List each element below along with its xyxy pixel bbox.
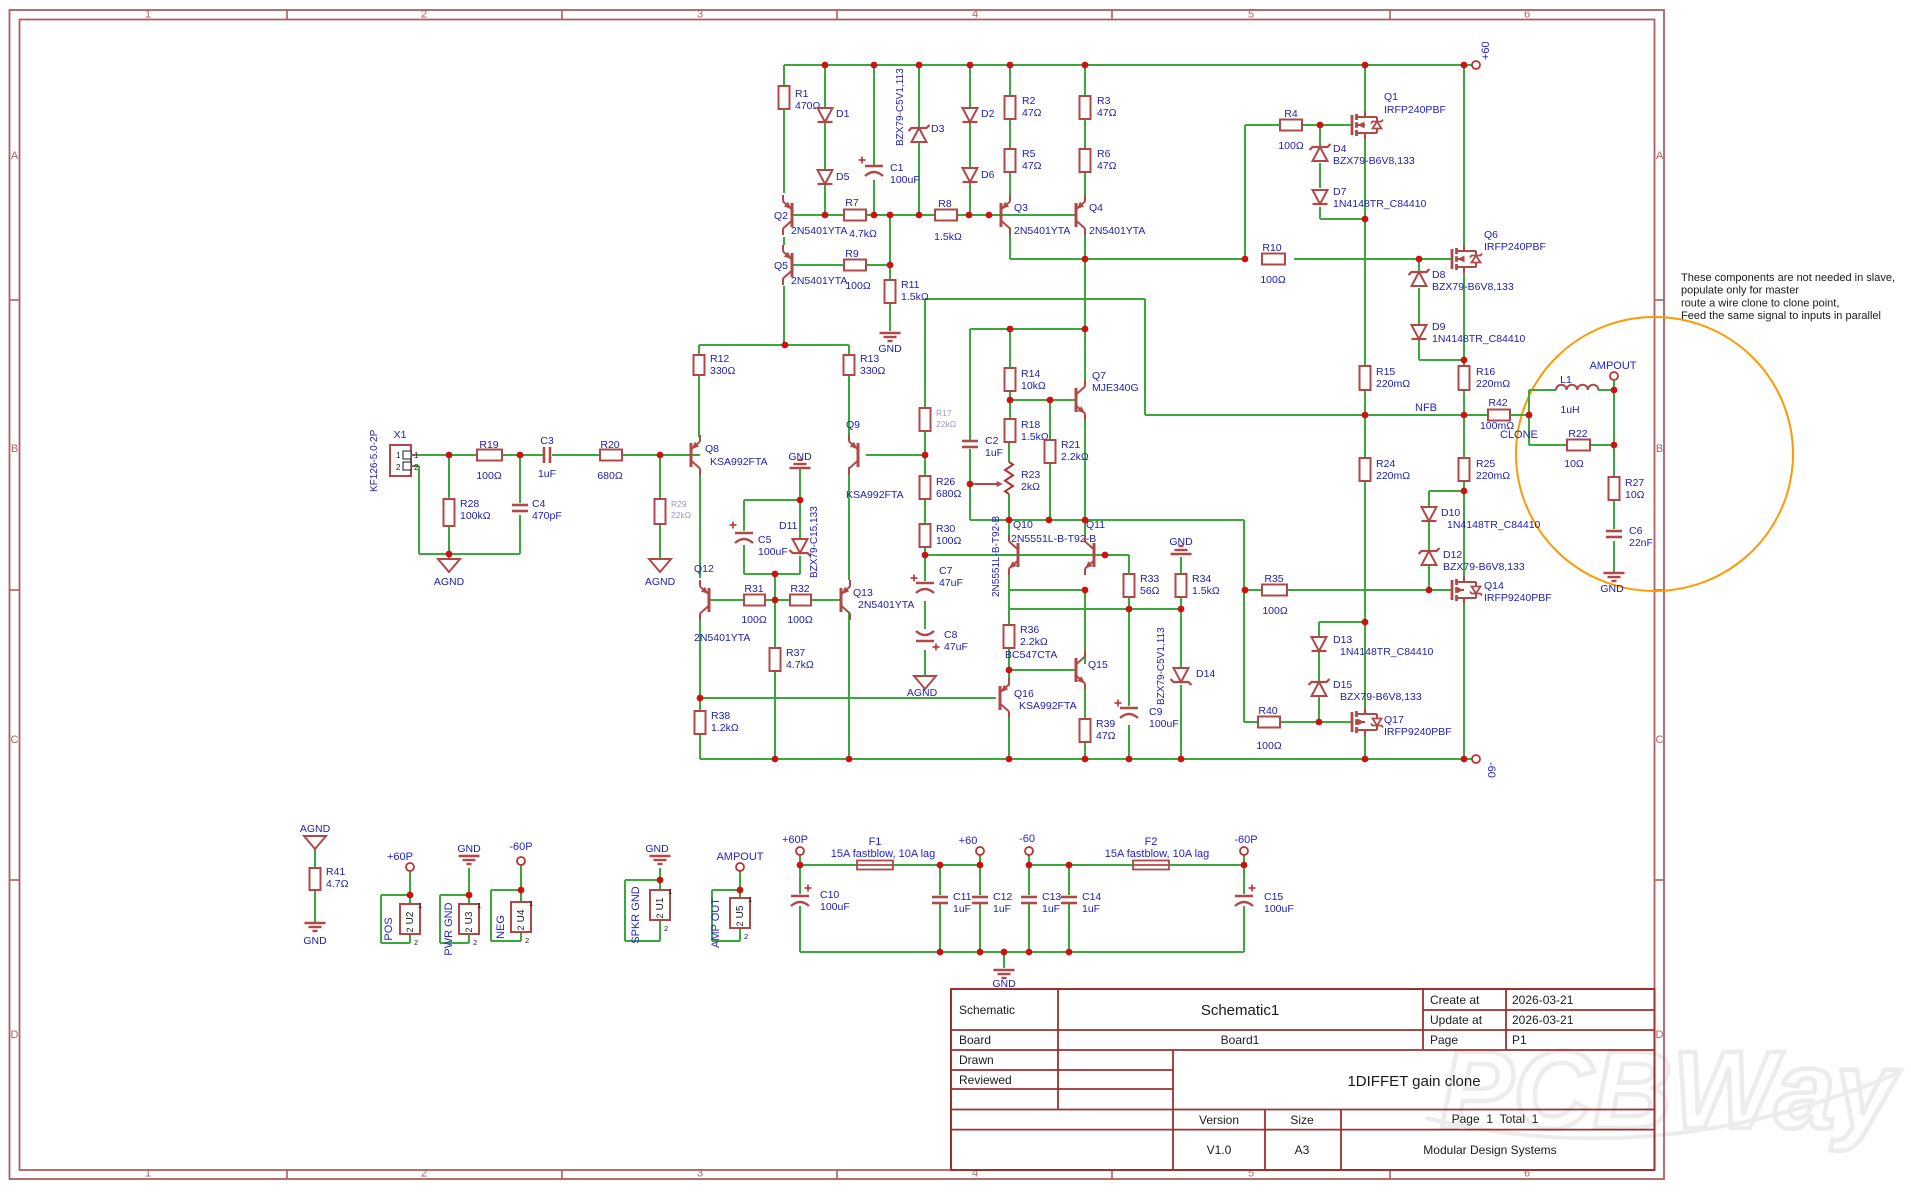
svg-text:Update at: Update at — [1430, 1013, 1483, 1027]
svg-text:2N5551L-B-T92-B: 2N5551L-B-T92-B — [991, 516, 1002, 597]
svg-text:GND: GND — [788, 451, 812, 463]
svg-text:2: 2 — [464, 927, 474, 932]
svg-text:BZX79-B6V8,133: BZX79-B6V8,133 — [1443, 561, 1525, 573]
svg-text:KSA992FTA: KSA992FTA — [710, 456, 768, 468]
svg-text:C11: C11 — [953, 891, 972, 903]
svg-text:470Ω: 470Ω — [795, 100, 821, 112]
svg-text:R35: R35 — [1264, 573, 1283, 585]
svg-text:100Ω: 100Ω — [787, 614, 813, 626]
svg-text:R39: R39 — [1096, 718, 1115, 730]
svg-text:100Ω: 100Ω — [1260, 274, 1286, 286]
svg-text:100Ω: 100Ω — [741, 614, 767, 626]
svg-text:1: 1 — [748, 895, 752, 904]
svg-text:R7: R7 — [845, 197, 859, 209]
svg-text:C: C — [11, 734, 19, 746]
svg-text:R33: R33 — [1140, 573, 1159, 585]
svg-text:1: 1 — [668, 887, 672, 896]
svg-text:1.5kΩ: 1.5kΩ — [934, 231, 962, 243]
svg-text:AMPOUT: AMPOUT — [1589, 360, 1636, 372]
svg-text:MJE340G: MJE340G — [1092, 382, 1139, 394]
svg-text:R10: R10 — [1262, 242, 1281, 254]
svg-text:47Ω: 47Ω — [1096, 730, 1116, 742]
svg-text:10kΩ: 10kΩ — [1021, 380, 1046, 392]
svg-text:R27: R27 — [1625, 477, 1644, 489]
svg-text:R31: R31 — [744, 583, 763, 595]
svg-text:1N4148TR_C84410: 1N4148TR_C84410 — [1432, 333, 1526, 345]
svg-text:R38: R38 — [711, 710, 730, 722]
svg-text:47Ω: 47Ω — [1022, 107, 1042, 119]
svg-text:100uF: 100uF — [1149, 718, 1179, 730]
svg-text:KSA992FTA: KSA992FTA — [846, 489, 904, 501]
svg-text:A: A — [11, 150, 19, 162]
svg-text:2: 2 — [414, 938, 418, 947]
svg-text:Board: Board — [959, 1033, 991, 1047]
svg-text:AMPOUT: AMPOUT — [716, 851, 763, 863]
svg-text:R3: R3 — [1097, 95, 1111, 107]
svg-text:C12: C12 — [993, 891, 1012, 903]
svg-text:100Ω: 100Ω — [1278, 140, 1304, 152]
svg-text:R36: R36 — [1020, 624, 1039, 636]
svg-text:X1: X1 — [394, 429, 407, 441]
svg-text:1uF: 1uF — [993, 903, 1011, 915]
svg-text:R40: R40 — [1258, 705, 1277, 717]
svg-text:220mΩ: 220mΩ — [1476, 378, 1510, 390]
svg-text:U1: U1 — [655, 897, 666, 910]
svg-text:+60: +60 — [1480, 41, 1492, 60]
svg-text:Q2: Q2 — [774, 210, 788, 222]
svg-text:BZX79-B6V8,133: BZX79-B6V8,133 — [1432, 281, 1514, 293]
svg-text:1: 1 — [477, 901, 481, 910]
svg-text:Modular Design Systems: Modular Design Systems — [1423, 1143, 1556, 1157]
svg-text:BZX79-B6V8,133: BZX79-B6V8,133 — [1333, 155, 1415, 167]
svg-text:R42: R42 — [1488, 397, 1507, 409]
svg-text:100kΩ: 100kΩ — [460, 510, 491, 522]
svg-text:C15: C15 — [1264, 891, 1283, 903]
svg-text:1uF: 1uF — [985, 447, 1003, 459]
svg-text:R21: R21 — [1061, 439, 1080, 451]
svg-text:Q3: Q3 — [1014, 202, 1028, 214]
svg-text:1: 1 — [145, 9, 151, 21]
svg-text:2: 2 — [516, 925, 526, 930]
svg-text:R23: R23 — [1021, 469, 1040, 481]
svg-text:IRFP240PBF: IRFP240PBF — [1484, 241, 1546, 253]
svg-text:GND: GND — [1600, 583, 1624, 595]
svg-text:C9: C9 — [1149, 706, 1163, 718]
svg-text:4.7kΩ: 4.7kΩ — [849, 228, 877, 240]
svg-text:R18: R18 — [1021, 419, 1040, 431]
svg-text:4: 4 — [972, 9, 978, 21]
svg-text:2: 2 — [414, 463, 419, 472]
svg-text:D15: D15 — [1333, 679, 1352, 691]
svg-text:100uF: 100uF — [758, 546, 788, 558]
svg-text:+60: +60 — [959, 835, 978, 847]
svg-text:B: B — [11, 443, 18, 455]
svg-text:2026-03-21: 2026-03-21 — [1512, 1013, 1574, 1027]
svg-text:Drawn: Drawn — [959, 1053, 994, 1067]
svg-text:BC547CTA: BC547CTA — [1005, 649, 1057, 661]
svg-text:220mΩ: 220mΩ — [1376, 378, 1410, 390]
svg-text:D12: D12 — [1443, 549, 1462, 561]
svg-text:Feed the same signal to inputs: Feed the same signal to inputs in parall… — [1681, 310, 1881, 322]
svg-text:POS: POS — [383, 917, 395, 940]
svg-text:GND: GND — [1169, 536, 1193, 548]
svg-text:AGND: AGND — [300, 823, 331, 835]
svg-text:C5: C5 — [758, 534, 772, 546]
svg-text:Size: Size — [1290, 1113, 1314, 1127]
svg-text:1.5kΩ: 1.5kΩ — [1192, 585, 1220, 597]
svg-text:C6: C6 — [1629, 525, 1643, 537]
svg-text:2N5401YTA: 2N5401YTA — [858, 599, 914, 611]
svg-text:1: 1 — [145, 1168, 151, 1180]
svg-text:R34: R34 — [1192, 573, 1211, 585]
svg-text:Board1: Board1 — [1221, 1033, 1260, 1047]
svg-text:R16: R16 — [1476, 366, 1495, 378]
svg-text:R26: R26 — [936, 476, 955, 488]
svg-text:D3: D3 — [931, 123, 945, 135]
svg-text:Q5: Q5 — [774, 260, 788, 272]
svg-text:3: 3 — [697, 1168, 703, 1180]
svg-text:R8: R8 — [938, 198, 952, 210]
svg-text:2: 2 — [421, 1168, 427, 1180]
svg-text:22kΩ: 22kΩ — [671, 510, 691, 520]
svg-text:GND: GND — [878, 343, 902, 355]
svg-text:4.7Ω: 4.7Ω — [326, 878, 349, 890]
svg-text:2: 2 — [525, 936, 529, 945]
svg-text:D13: D13 — [1333, 634, 1352, 646]
svg-text:1N4148TR_C84410: 1N4148TR_C84410 — [1333, 198, 1427, 210]
svg-text:330Ω: 330Ω — [860, 365, 886, 377]
svg-text:D9: D9 — [1432, 321, 1446, 333]
svg-text:220mΩ: 220mΩ — [1376, 470, 1410, 482]
svg-text:Schematic1: Schematic1 — [1201, 1002, 1279, 1019]
svg-text:47Ω: 47Ω — [1022, 160, 1042, 172]
svg-text:1uF: 1uF — [538, 468, 556, 480]
svg-text:C: C — [1656, 734, 1664, 746]
svg-text:R2: R2 — [1022, 95, 1036, 107]
svg-text:AGND: AGND — [907, 687, 938, 699]
svg-text:100uF: 100uF — [890, 174, 920, 186]
svg-text:15A fastblow, 10A lag: 15A fastblow, 10A lag — [1105, 848, 1210, 860]
svg-text:Q7: Q7 — [1092, 370, 1106, 382]
svg-text:100Ω: 100Ω — [476, 470, 502, 482]
svg-text:C14: C14 — [1082, 891, 1101, 903]
svg-text:NEG: NEG — [495, 915, 507, 939]
svg-text:R24: R24 — [1376, 458, 1395, 470]
svg-text:470pF: 470pF — [532, 510, 562, 522]
svg-text:F1: F1 — [869, 836, 882, 848]
svg-text:2N5401YTA: 2N5401YTA — [694, 632, 750, 644]
svg-text:2: 2 — [655, 913, 665, 918]
svg-text:Q11: Q11 — [1086, 519, 1105, 531]
svg-text:Q4: Q4 — [1089, 202, 1103, 214]
svg-text:V1.0: V1.0 — [1207, 1143, 1232, 1157]
svg-text:R37: R37 — [786, 647, 805, 659]
svg-text:R1: R1 — [795, 88, 809, 100]
svg-text:100Ω: 100Ω — [936, 535, 962, 547]
svg-text:R15: R15 — [1376, 366, 1395, 378]
svg-text:680Ω: 680Ω — [597, 470, 623, 482]
svg-text:Q1: Q1 — [1384, 91, 1398, 103]
svg-text:100Ω: 100Ω — [1262, 605, 1288, 617]
svg-text:47Ω: 47Ω — [1097, 107, 1117, 119]
svg-text:-60: -60 — [1485, 762, 1497, 778]
svg-text:2: 2 — [405, 927, 415, 932]
svg-text:R11: R11 — [901, 279, 920, 291]
svg-text:Q16: Q16 — [1014, 688, 1034, 700]
svg-text:220mΩ: 220mΩ — [1476, 470, 1510, 482]
svg-text:route a wire clone to clone po: route a wire clone to clone point, — [1681, 297, 1839, 309]
svg-text:Create at: Create at — [1430, 993, 1480, 1007]
svg-text:D2: D2 — [981, 108, 995, 120]
svg-text:100uF: 100uF — [1264, 903, 1294, 915]
svg-text:D8: D8 — [1432, 269, 1446, 281]
svg-text:Version: Version — [1199, 1113, 1239, 1127]
svg-text:BZX79-B6V8,133: BZX79-B6V8,133 — [1340, 691, 1422, 703]
svg-text:F2: F2 — [1145, 836, 1158, 848]
svg-text:330Ω: 330Ω — [710, 365, 736, 377]
svg-text:Q8: Q8 — [705, 443, 719, 455]
svg-text:56Ω: 56Ω — [1140, 585, 1160, 597]
svg-text:R32: R32 — [790, 583, 809, 595]
svg-text:AMP OUT: AMP OUT — [710, 898, 722, 948]
svg-text:BZX79-C5V1,113: BZX79-C5V1,113 — [895, 68, 906, 146]
svg-text:C2: C2 — [985, 435, 999, 447]
svg-text:R41: R41 — [326, 866, 345, 878]
svg-text:R20: R20 — [600, 439, 619, 451]
svg-text:2N5401YTA: 2N5401YTA — [791, 275, 847, 287]
svg-text:Q13: Q13 — [853, 587, 873, 599]
svg-text:IRFP9240PBF: IRFP9240PBF — [1484, 592, 1552, 604]
svg-text:1.5kΩ: 1.5kΩ — [901, 291, 929, 303]
svg-text:-60P: -60P — [509, 841, 532, 853]
svg-text:GND: GND — [645, 843, 669, 855]
svg-text:1: 1 — [418, 901, 422, 910]
svg-text:Q10: Q10 — [1013, 519, 1033, 531]
svg-text:U5: U5 — [735, 905, 746, 918]
svg-text:Reviewed: Reviewed — [959, 1073, 1012, 1087]
svg-text:2N5401YTA: 2N5401YTA — [1014, 225, 1070, 237]
svg-text:1DIFFET gain clone: 1DIFFET gain clone — [1347, 1073, 1480, 1090]
svg-text:C7: C7 — [939, 565, 953, 577]
svg-text:1N4148TR_C84410: 1N4148TR_C84410 — [1340, 646, 1434, 658]
svg-text:+60P: +60P — [782, 834, 808, 846]
svg-text:2kΩ: 2kΩ — [1021, 481, 1040, 493]
svg-text:C4: C4 — [532, 498, 546, 510]
svg-text:D11: D11 — [779, 520, 798, 532]
svg-text:R12: R12 — [710, 353, 729, 365]
svg-text:IRFP9240PBF: IRFP9240PBF — [1384, 726, 1452, 738]
svg-text:2: 2 — [396, 463, 401, 472]
svg-text:NFB: NFB — [1415, 402, 1437, 414]
svg-text:R5: R5 — [1022, 148, 1036, 160]
svg-text:U3: U3 — [464, 911, 475, 924]
svg-text:C3: C3 — [540, 435, 554, 447]
svg-text:47uF: 47uF — [944, 641, 968, 653]
svg-text:2: 2 — [473, 938, 477, 947]
svg-text:1: 1 — [414, 451, 419, 460]
svg-text:These components are not neede: These components are not needed in slave… — [1681, 272, 1895, 284]
svg-text:GND: GND — [303, 935, 327, 947]
svg-text:1: 1 — [529, 899, 533, 908]
svg-text:D: D — [1656, 1029, 1664, 1041]
svg-text:IRFP240PBF: IRFP240PBF — [1384, 104, 1446, 116]
svg-text:Q15: Q15 — [1088, 659, 1108, 671]
svg-text:D6: D6 — [981, 169, 995, 181]
svg-text:2N5401YTA: 2N5401YTA — [1089, 225, 1145, 237]
svg-text:10Ω: 10Ω — [1625, 489, 1645, 501]
svg-text:D1: D1 — [836, 108, 850, 120]
svg-text:R9: R9 — [845, 248, 859, 260]
svg-text:C10: C10 — [820, 889, 839, 901]
svg-text:CLONE: CLONE — [1500, 429, 1538, 441]
svg-text:5: 5 — [1248, 9, 1254, 21]
svg-text:U4: U4 — [516, 909, 527, 922]
svg-text:15A fastblow, 10A lag: 15A fastblow, 10A lag — [831, 848, 936, 860]
svg-text:Q6: Q6 — [1484, 229, 1498, 241]
svg-text:Q12: Q12 — [694, 563, 714, 575]
svg-text:2: 2 — [735, 921, 745, 926]
svg-text:BZX79-C5V1,113: BZX79-C5V1,113 — [1156, 627, 1167, 705]
svg-text:Page 1 Total 1: Page 1 Total 1 — [1452, 1112, 1539, 1126]
svg-text:AGND: AGND — [434, 576, 465, 588]
svg-text:C8: C8 — [944, 629, 958, 641]
svg-text:2: 2 — [744, 932, 748, 941]
svg-text:22kΩ: 22kΩ — [936, 419, 956, 429]
svg-text:-60: -60 — [1019, 833, 1035, 845]
svg-text:Q17: Q17 — [1384, 714, 1404, 726]
svg-text:D5: D5 — [836, 171, 850, 183]
svg-text:BZX79-C15,133: BZX79-C15,133 — [809, 506, 820, 578]
svg-text:P1: P1 — [1512, 1033, 1527, 1047]
svg-text:1uF: 1uF — [953, 903, 971, 915]
svg-text:47Ω: 47Ω — [1097, 160, 1117, 172]
svg-text:C1: C1 — [890, 162, 904, 174]
svg-text:Schematic: Schematic — [959, 1003, 1015, 1017]
svg-text:R25: R25 — [1476, 458, 1495, 470]
svg-text:D14: D14 — [1196, 668, 1215, 680]
svg-text:6: 6 — [1524, 9, 1530, 21]
svg-text:D: D — [11, 1029, 19, 1041]
svg-text:1: 1 — [396, 451, 401, 460]
svg-text:1uH: 1uH — [1560, 404, 1579, 416]
svg-text:R22: R22 — [1568, 428, 1587, 440]
svg-text:100Ω: 100Ω — [845, 280, 871, 292]
svg-text:KSA992FTA: KSA992FTA — [1019, 700, 1077, 712]
svg-text:2.2kΩ: 2.2kΩ — [1020, 636, 1048, 648]
svg-text:10Ω: 10Ω — [1564, 458, 1584, 470]
svg-text:-60P: -60P — [1234, 834, 1257, 846]
svg-text:2: 2 — [421, 9, 427, 21]
svg-text:1.2kΩ: 1.2kΩ — [711, 722, 739, 734]
svg-text:R19: R19 — [479, 439, 498, 451]
svg-text:Page: Page — [1430, 1033, 1458, 1047]
svg-text:100Ω: 100Ω — [1256, 740, 1282, 752]
svg-text:B: B — [1656, 443, 1663, 455]
svg-text:U2: U2 — [405, 911, 416, 924]
svg-text:100uF: 100uF — [820, 901, 850, 913]
svg-text:SPKR GND: SPKR GND — [630, 886, 642, 944]
svg-text:D10: D10 — [1441, 507, 1460, 519]
svg-text:A3: A3 — [1295, 1143, 1310, 1157]
svg-text:populate only for master: populate only for master — [1681, 285, 1799, 297]
svg-text:680Ω: 680Ω — [936, 488, 962, 500]
svg-text:A: A — [1656, 150, 1664, 162]
svg-text:R14: R14 — [1021, 368, 1040, 380]
svg-text:GND: GND — [457, 843, 481, 855]
svg-text:PWR GND: PWR GND — [443, 902, 455, 955]
svg-text:L1: L1 — [1560, 374, 1572, 386]
svg-text:2N5551L-B-T92-B: 2N5551L-B-T92-B — [1011, 533, 1096, 545]
svg-text:R4: R4 — [1284, 108, 1298, 120]
svg-text:2: 2 — [664, 924, 668, 933]
svg-text:2N5401YTA: 2N5401YTA — [791, 225, 847, 237]
svg-text:R17: R17 — [936, 408, 952, 418]
svg-text:47uF: 47uF — [939, 577, 963, 589]
svg-text:2.2kΩ: 2.2kΩ — [1061, 451, 1089, 463]
svg-text:2026-03-21: 2026-03-21 — [1512, 993, 1574, 1007]
svg-text:AGND: AGND — [645, 576, 676, 588]
svg-text:4.7kΩ: 4.7kΩ — [786, 659, 814, 671]
svg-text:D4: D4 — [1333, 143, 1347, 155]
svg-text:KF126-5.0-2P: KF126-5.0-2P — [369, 429, 380, 492]
svg-text:R13: R13 — [860, 353, 879, 365]
svg-text:1N4148TR_C84410: 1N4148TR_C84410 — [1447, 519, 1541, 531]
svg-text:Q14: Q14 — [1484, 580, 1504, 592]
svg-text:+60P: +60P — [387, 851, 413, 863]
svg-text:3: 3 — [697, 9, 703, 21]
svg-text:22nF: 22nF — [1629, 537, 1653, 549]
svg-text:D7: D7 — [1333, 186, 1347, 198]
svg-text:R28: R28 — [460, 498, 479, 510]
svg-text:Q9: Q9 — [846, 419, 860, 431]
svg-text:R6: R6 — [1097, 148, 1111, 160]
svg-text:C13: C13 — [1042, 891, 1061, 903]
svg-text:R29: R29 — [671, 499, 687, 509]
svg-text:R30: R30 — [936, 523, 955, 535]
svg-text:1uF: 1uF — [1042, 903, 1060, 915]
svg-text:1uF: 1uF — [1082, 903, 1100, 915]
